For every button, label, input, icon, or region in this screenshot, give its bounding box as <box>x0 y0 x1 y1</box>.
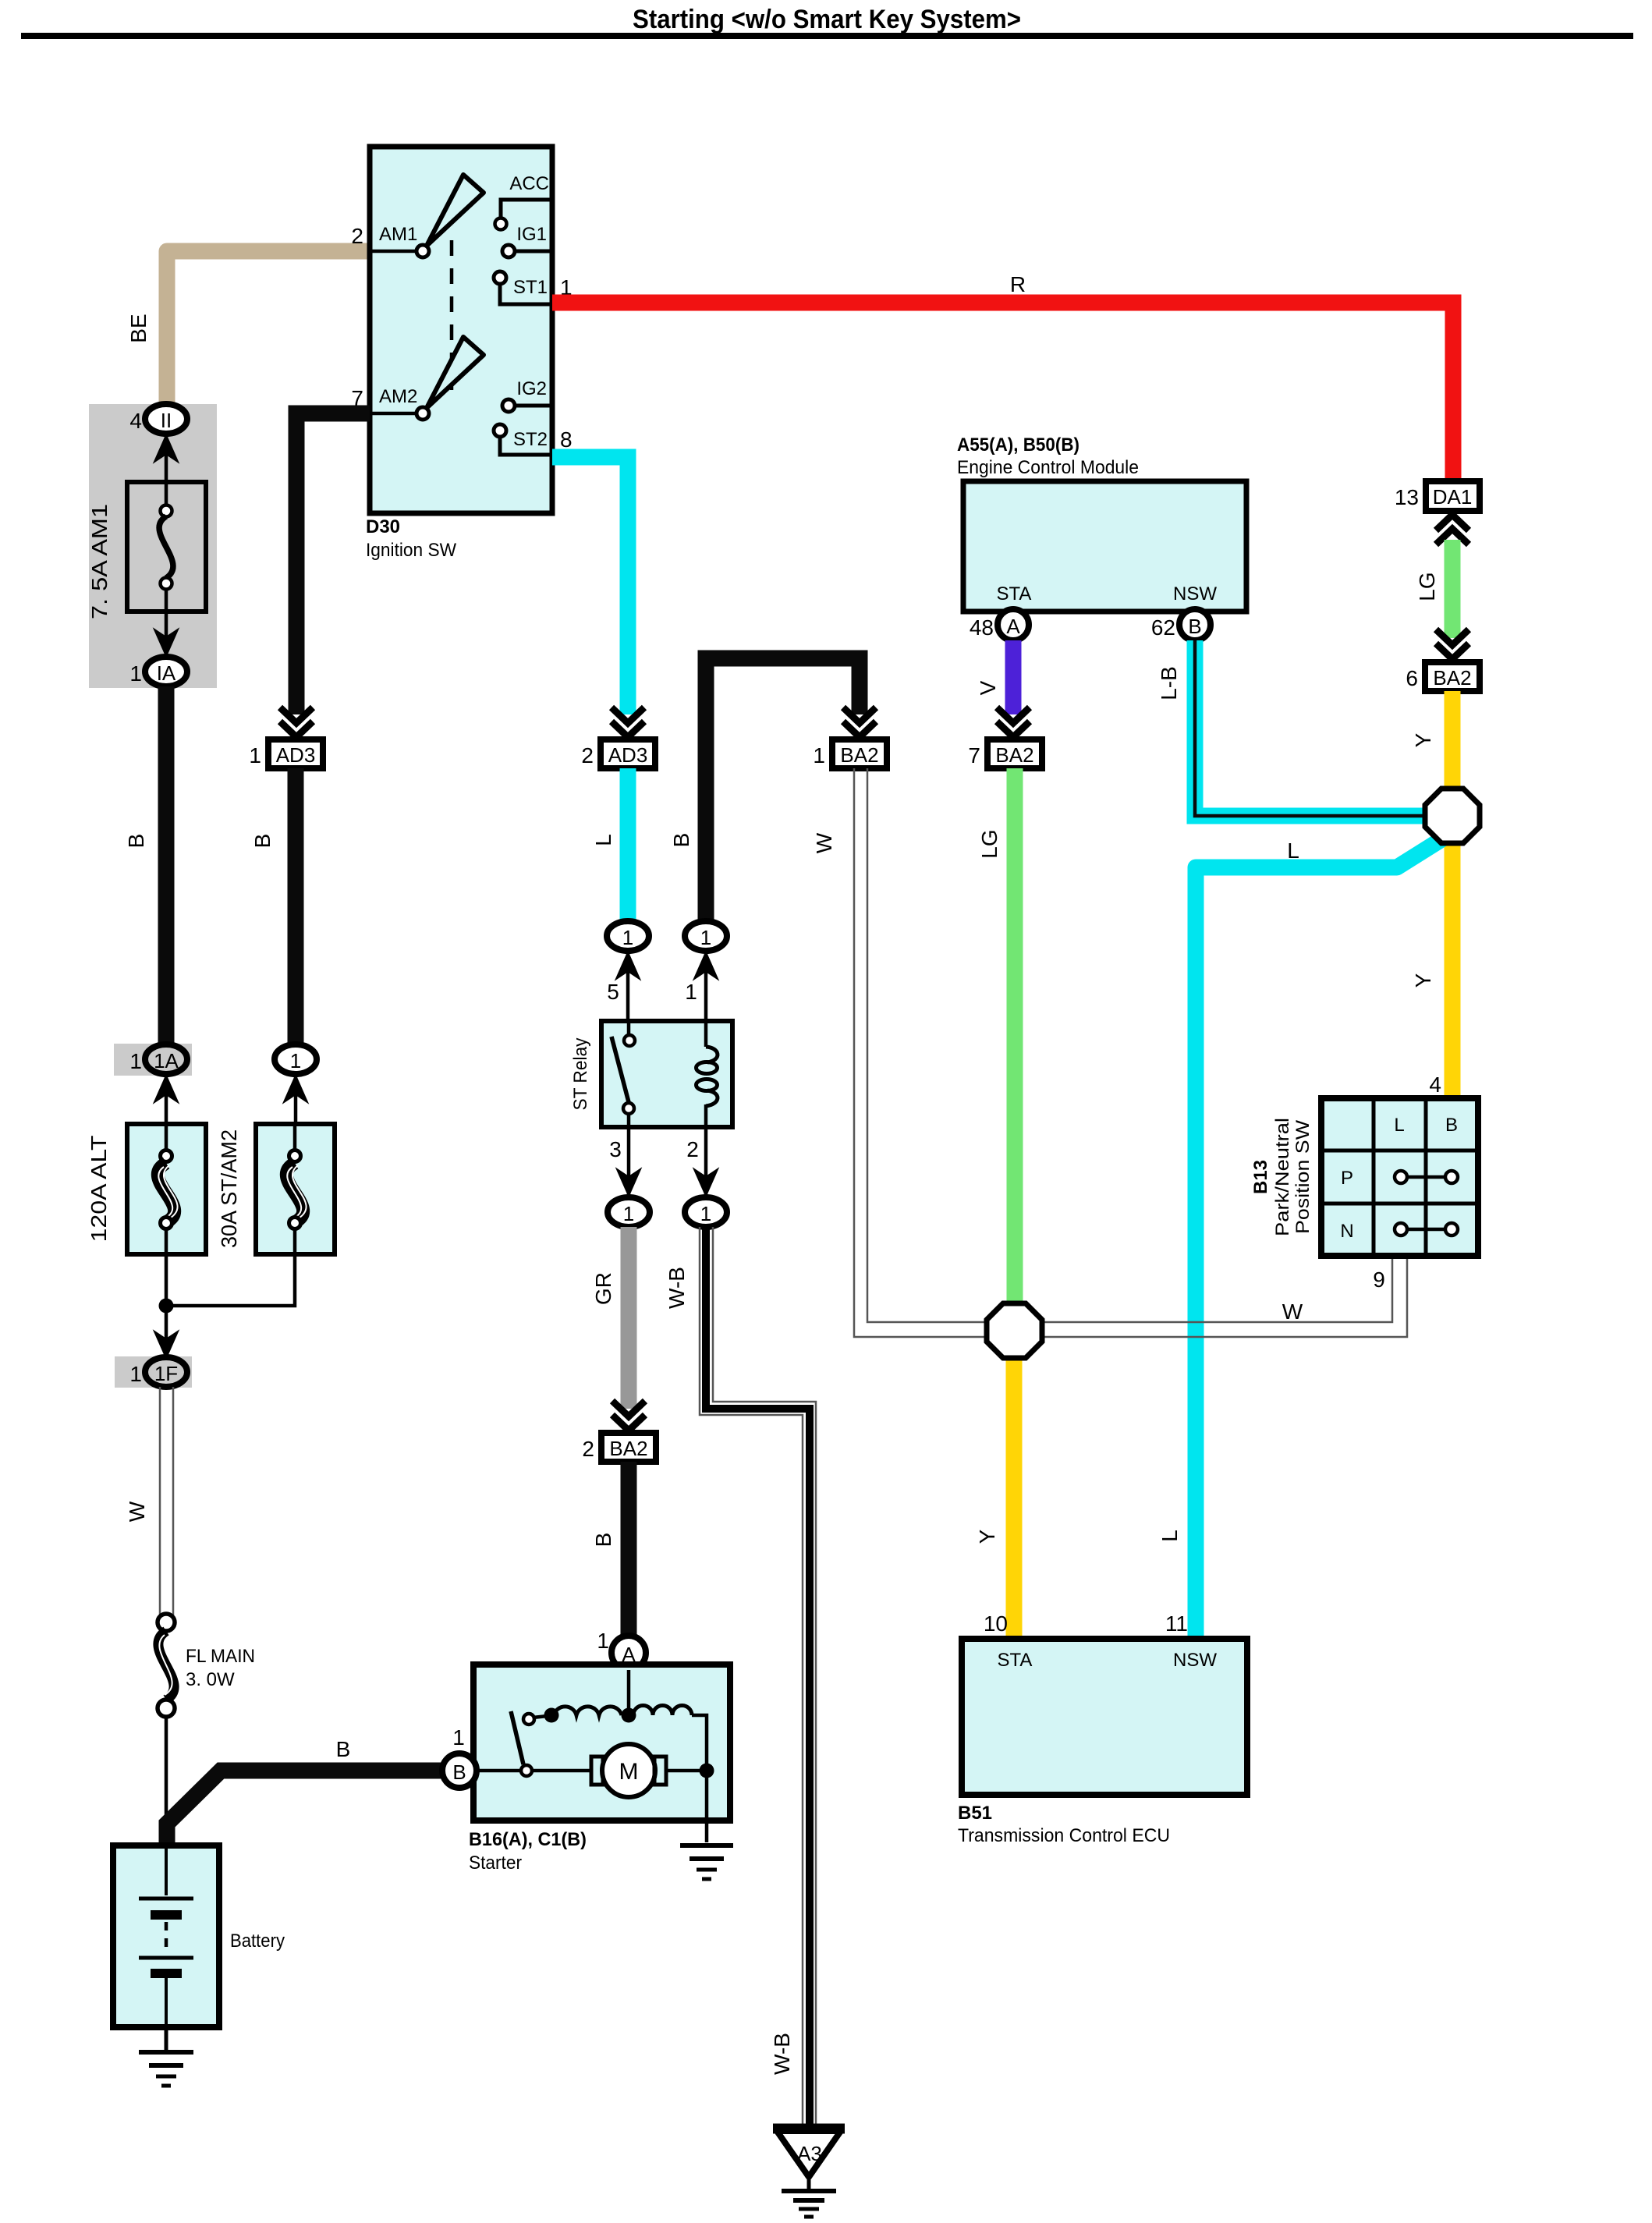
pin 1 label ST1 <box>560 275 573 300</box>
svg-text:4: 4 <box>129 409 142 433</box>
svg-text:DA1: DA1 <box>1433 485 1473 509</box>
svg-text:B: B <box>1188 615 1201 638</box>
relay pin 2 oval 1 <box>685 1197 727 1227</box>
svg-text:Transmission Control ECU: Transmission Control ECU <box>958 1825 1170 1846</box>
ECM labels A55(A) B50(B) <box>957 434 1139 478</box>
svg-text:1: 1 <box>685 980 697 1004</box>
pin 4 label of connector II <box>129 409 142 433</box>
pin 8 label ST2 <box>560 427 573 452</box>
svg-text:M: M <box>619 1759 639 1785</box>
arrow chevron into 1 AD3 <box>280 707 313 737</box>
terminal IG1 <box>502 224 552 257</box>
svg-text:11: 11 <box>1165 1611 1188 1636</box>
arrow chevron into 6 BA2 <box>1436 629 1469 659</box>
B13 cell labels <box>1340 1115 1458 1242</box>
starter field coil left <box>544 1707 622 1723</box>
wire W from 1 BA2 to junction octagon <box>812 768 987 1337</box>
wire B from ST relay pin 1 to connector 1 BA2 <box>669 658 860 922</box>
svg-text:BA2: BA2 <box>840 743 878 767</box>
connector 7 BA2 <box>968 739 1042 768</box>
svg-text:Starter: Starter <box>469 1852 522 1874</box>
wire B from battery to starter terminal B <box>167 1737 442 1847</box>
value label 120A ALT <box>87 1136 111 1243</box>
svg-text:2: 2 <box>686 1137 699 1161</box>
wire into relay pin 1 <box>694 952 718 1021</box>
svg-text:ST1: ST1 <box>513 277 548 298</box>
svg-text:Y: Y <box>1411 732 1435 747</box>
wire from 1A to fusible link 120A ALT <box>165 1076 168 1124</box>
svg-text:Starting <w/o Smart Key System: Starting <w/o Smart Key System> <box>633 5 1021 34</box>
svg-text:13: 13 <box>1395 485 1419 509</box>
svg-text:B16(A), C1(B): B16(A), C1(B) <box>469 1829 587 1850</box>
svg-text:II: II <box>161 409 172 432</box>
ST Relay box <box>570 1021 732 1127</box>
top rule <box>21 33 1633 39</box>
B13 N contact <box>1395 1223 1458 1236</box>
wire from relay pin 2 <box>694 1127 718 1196</box>
wire from FL MAIN to battery <box>165 1717 168 1845</box>
wire into relay pin 5 <box>616 952 640 1021</box>
svg-text:B: B <box>591 1533 615 1548</box>
pin 4 label B13 <box>1429 1072 1441 1097</box>
svg-text:Ignition SW: Ignition SW <box>366 540 456 561</box>
svg-text:A: A <box>1006 615 1020 638</box>
svg-text:48: 48 <box>970 615 994 640</box>
ground below battery <box>139 2027 193 2086</box>
svg-text:W: W <box>1282 1299 1303 1324</box>
wire from terminal A into coil junction <box>622 1670 636 1723</box>
terminal AM2 <box>372 386 429 420</box>
starter magnetic switch <box>477 1711 548 1776</box>
fusible link 30A ST/AM2 <box>256 1124 335 1254</box>
svg-text:LG: LG <box>1415 572 1439 601</box>
svg-text:62: 62 <box>1151 615 1175 640</box>
svg-text:A3: A3 <box>797 2142 822 2165</box>
value label 30A ST/AM2 <box>217 1129 241 1248</box>
svg-text:L: L <box>1394 1115 1404 1136</box>
terminal ACC <box>495 173 553 230</box>
svg-text:ACC: ACC <box>509 173 549 194</box>
pin 1 label of connector 1F <box>129 1362 142 1386</box>
relay pin 5 connector oval 1 <box>607 921 649 951</box>
wire from fuse AM1 to connector IA <box>165 612 168 659</box>
wire from 120A ALT down to 1F <box>165 1254 168 1360</box>
svg-text:AD3: AD3 <box>276 743 316 767</box>
svg-text:A55(A), B50(B): A55(A), B50(B) <box>957 434 1079 456</box>
svg-text:1: 1 <box>129 1362 142 1386</box>
relay pin 3 oval 1 <box>608 1197 650 1227</box>
svg-text:7. 5A AM1: 7. 5A AM1 <box>87 504 112 619</box>
svg-text:Y: Y <box>975 1529 999 1544</box>
junction octagon middle <box>987 1303 1042 1358</box>
connector II <box>145 404 187 434</box>
svg-text:NSW: NSW <box>1173 583 1217 604</box>
svg-text:Position SW: Position SW <box>1292 1120 1313 1234</box>
connector 1 BA2 <box>813 739 887 768</box>
wire W from 1F to FL MAIN <box>125 1387 173 1615</box>
wire LG from 7 BA2 to junction octagon <box>977 768 1015 1303</box>
wire from relay pin 3 <box>617 1127 640 1196</box>
ignition switch D30 box <box>370 147 552 513</box>
connector 1 AD3 <box>249 739 323 768</box>
pin 1 label <box>685 980 697 1004</box>
relay switch contacts <box>612 1021 635 1127</box>
svg-text:1: 1 <box>813 743 825 768</box>
svg-text:W: W <box>812 832 836 853</box>
wire W-B from relay pin 2 to ground A3 <box>665 1227 816 2126</box>
svg-text:Battery: Battery <box>230 1930 285 1952</box>
svg-text:10: 10 <box>984 1611 1008 1636</box>
arrow up into II <box>154 435 178 462</box>
svg-text:1A: 1A <box>154 1049 179 1072</box>
svg-text:BE: BE <box>126 314 151 342</box>
battery <box>113 1845 285 2027</box>
pin 7 label AM2 <box>351 386 363 410</box>
svg-text:6: 6 <box>1406 666 1418 690</box>
svg-text:W-B: W-B <box>770 2033 794 2075</box>
value label 7.5A AM1 <box>87 504 112 619</box>
svg-text:AM2: AM2 <box>379 386 417 407</box>
terminal AM1 <box>372 224 429 257</box>
wire W from octagon middle to B13 pin 9 <box>1042 1257 1407 1337</box>
svg-text:5: 5 <box>607 980 619 1004</box>
wire Y from octagon middle to transmission ECU STA <box>975 1358 1014 1638</box>
svg-text:D30: D30 <box>366 516 400 537</box>
svg-text:1: 1 <box>452 1725 465 1750</box>
B13 park/neutral position switch labels <box>1250 1118 1313 1236</box>
terminal IG2 <box>502 378 552 412</box>
connector 1F <box>145 1357 187 1387</box>
wire from 30A ST/AM2 to junction <box>166 1254 295 1306</box>
starter field coil right <box>633 1706 707 1764</box>
svg-text:L: L <box>1287 838 1299 863</box>
svg-text:P: P <box>1341 1168 1353 1189</box>
switch lever AM1 <box>427 175 484 246</box>
wire from II to fuse AM1 <box>165 435 168 484</box>
svg-text:1: 1 <box>249 743 261 768</box>
svg-text:LG: LG <box>977 829 1001 858</box>
svg-text:1: 1 <box>700 926 711 949</box>
title Starting w/o Smart Key System <box>633 5 1021 34</box>
junction octagon right <box>1425 789 1480 843</box>
pin 9 label B13 <box>1373 1267 1385 1292</box>
svg-text:IA: IA <box>157 661 176 685</box>
wire Y from octagon to B13 pin 4 <box>1411 843 1452 1097</box>
svg-text:L: L <box>1157 1530 1182 1542</box>
connector 1A <box>145 1044 187 1074</box>
connector 1F highlight <box>115 1356 192 1388</box>
arrow chevron into 1 BA2 <box>843 707 876 737</box>
fusible link 120A ALT <box>127 1124 206 1254</box>
ECM box <box>963 481 1246 612</box>
terminal ST2 <box>494 424 552 455</box>
svg-text:B: B <box>669 833 693 848</box>
pin 5 label <box>607 980 619 1004</box>
svg-text:B51: B51 <box>958 1803 992 1824</box>
ground at starter <box>680 1845 733 1879</box>
wire L from ST2 to connector 2 AD3 <box>552 457 628 714</box>
svg-text:ST2: ST2 <box>513 429 548 450</box>
arrow up into 1A <box>154 1076 178 1102</box>
connector IA <box>145 657 187 686</box>
ground bars below A3 <box>782 2177 836 2217</box>
wire B from 2 BA2 to starter terminal A <box>591 1462 629 1636</box>
svg-text:B: B <box>250 834 275 849</box>
starter motor M <box>532 1744 700 1797</box>
svg-text:N: N <box>1340 1221 1353 1242</box>
svg-text:4: 4 <box>1429 1072 1441 1097</box>
svg-text:Engine Control Module: Engine Control Module <box>957 457 1139 478</box>
B13 park/neutral position switch box <box>1321 1098 1478 1256</box>
svg-text:B: B <box>452 1760 466 1784</box>
wire V from ECM STA to 7 BA2 <box>976 640 1013 714</box>
svg-text:R: R <box>1010 272 1026 296</box>
wire B from IA to connector 1A <box>124 686 166 1045</box>
pin 1 label of connector 1A <box>129 1049 142 1073</box>
svg-text:Park/Neutral: Park/Neutral <box>1272 1118 1293 1236</box>
pin 10 label B51 <box>984 1611 1008 1636</box>
wire BE from ignition SW AM1 to connector II <box>126 251 370 406</box>
svg-text:V: V <box>976 680 1000 695</box>
arrow chevron into 7 BA2 <box>997 707 1030 737</box>
svg-text:L: L <box>591 834 615 846</box>
relay coil <box>697 1021 718 1127</box>
svg-text:3: 3 <box>609 1137 622 1161</box>
ECM pin 62 B <box>1151 609 1211 640</box>
svg-text:FL MAIN: FL MAIN <box>186 1646 255 1667</box>
fuse block gray background <box>89 404 217 688</box>
svg-text:NSW: NSW <box>1173 1650 1217 1671</box>
svg-text:AD3: AD3 <box>608 743 648 767</box>
wire GR from relay to connector 2 BA2 <box>591 1227 629 1409</box>
switch lever AM2 <box>427 337 484 408</box>
connector 1 oval above 30A fuse <box>275 1044 317 1074</box>
svg-text:120A ALT: 120A ALT <box>87 1136 111 1243</box>
pin 2 label AM1 <box>351 224 363 248</box>
starter terminal A circle <box>597 1629 646 1670</box>
svg-text:1F: 1F <box>154 1362 178 1385</box>
fuse 7.5A AM1 <box>127 482 206 612</box>
svg-text:B: B <box>336 1737 351 1761</box>
relay pin 1 connector oval 1 <box>685 921 727 951</box>
pin 1 label of connector IA <box>129 661 142 686</box>
svg-text:B: B <box>124 834 148 849</box>
wire L-B from ECM NSW to junction octagon right <box>1157 640 1424 816</box>
svg-text:1: 1 <box>700 1202 711 1225</box>
svg-text:2: 2 <box>582 1437 594 1461</box>
connector 1A highlight <box>114 1044 192 1076</box>
pin 2 label <box>686 1137 699 1161</box>
svg-text:8: 8 <box>560 427 573 452</box>
ground A3 triangle <box>773 2129 845 2177</box>
svg-text:AM1: AM1 <box>379 224 417 245</box>
arrow down into IA <box>154 629 178 656</box>
starter internal ground junction <box>700 1764 714 1843</box>
arrow up into oval 1 <box>284 1076 307 1124</box>
starter labels <box>469 1829 587 1874</box>
ECM pin 48 A <box>970 609 1029 640</box>
svg-text:2: 2 <box>351 224 363 248</box>
svg-text:STA: STA <box>997 583 1032 604</box>
svg-text:STA: STA <box>998 1650 1033 1671</box>
svg-text:1: 1 <box>623 1202 634 1225</box>
svg-text:GR: GR <box>591 1272 615 1305</box>
wire B from 1 AD3 to fusible link connector <box>250 768 296 1045</box>
svg-text:9: 9 <box>1373 1267 1385 1292</box>
svg-text:W: W <box>125 1501 149 1522</box>
connector 6 BA2 <box>1406 662 1480 691</box>
svg-text:L-B: L-B <box>1157 666 1181 700</box>
arrow chevron up into DA1 <box>1436 515 1469 544</box>
connector 2 BA2 <box>582 1433 656 1462</box>
wire B from AM2 down to connector 1 AD3 <box>296 413 370 714</box>
transmission control ECU box B51 <box>962 1639 1247 1795</box>
svg-text:BA2: BA2 <box>995 743 1033 767</box>
svg-text:3. 0W: 3. 0W <box>186 1669 235 1690</box>
svg-text:1: 1 <box>129 661 142 686</box>
connector 13 DA1 <box>1395 481 1480 511</box>
pin 11 label B51 <box>1165 1611 1188 1636</box>
wire Y from 6 BA2 to octagon <box>1411 691 1452 791</box>
svg-text:1: 1 <box>597 1629 609 1653</box>
svg-text:1: 1 <box>622 926 633 949</box>
svg-text:7: 7 <box>968 743 980 768</box>
svg-text:BA2: BA2 <box>609 1437 647 1460</box>
svg-text:IG1: IG1 <box>516 224 547 245</box>
svg-text:BA2: BA2 <box>1433 666 1471 690</box>
wire L from 2 AD3 to ST relay pin 5 <box>591 768 628 922</box>
svg-text:1: 1 <box>129 1049 142 1073</box>
connector 2 AD3 <box>581 739 655 768</box>
svg-text:ST Relay: ST Relay <box>570 1038 591 1111</box>
arrow chevron into 2 BA2 <box>612 1401 645 1431</box>
svg-text:1: 1 <box>290 1049 301 1072</box>
fusible link FL MAIN 3.0W <box>158 1614 255 1717</box>
svg-text:Y: Y <box>1411 973 1435 987</box>
svg-text:2: 2 <box>581 743 594 768</box>
svg-text:B13: B13 <box>1250 1160 1271 1194</box>
wire L from octagon to transmission ECU NSW <box>1157 838 1443 1638</box>
svg-text:B: B <box>1445 1115 1458 1136</box>
B13 P contact <box>1395 1171 1458 1183</box>
B51 labels <box>958 1803 1170 1846</box>
terminal ST1 <box>494 271 552 304</box>
pin 3 label <box>609 1137 622 1161</box>
svg-text:30A ST/AM2: 30A ST/AM2 <box>217 1129 241 1248</box>
starter B16(A) C1(B) box <box>473 1665 730 1821</box>
mechanical link dashed <box>450 240 454 390</box>
wire R from ST1 to connector DA1 <box>552 272 1453 480</box>
svg-text:W-B: W-B <box>665 1267 689 1309</box>
junction dot at fusible link node <box>159 1299 174 1314</box>
svg-text:IG2: IG2 <box>516 378 547 399</box>
D30 label <box>366 516 456 561</box>
wire LG from DA1 to 6 BA2 <box>1415 540 1452 638</box>
arrow down into 1F <box>154 1331 178 1358</box>
starter terminal B circle <box>442 1725 477 1788</box>
arrow chevron into 2 AD3 <box>612 707 644 737</box>
